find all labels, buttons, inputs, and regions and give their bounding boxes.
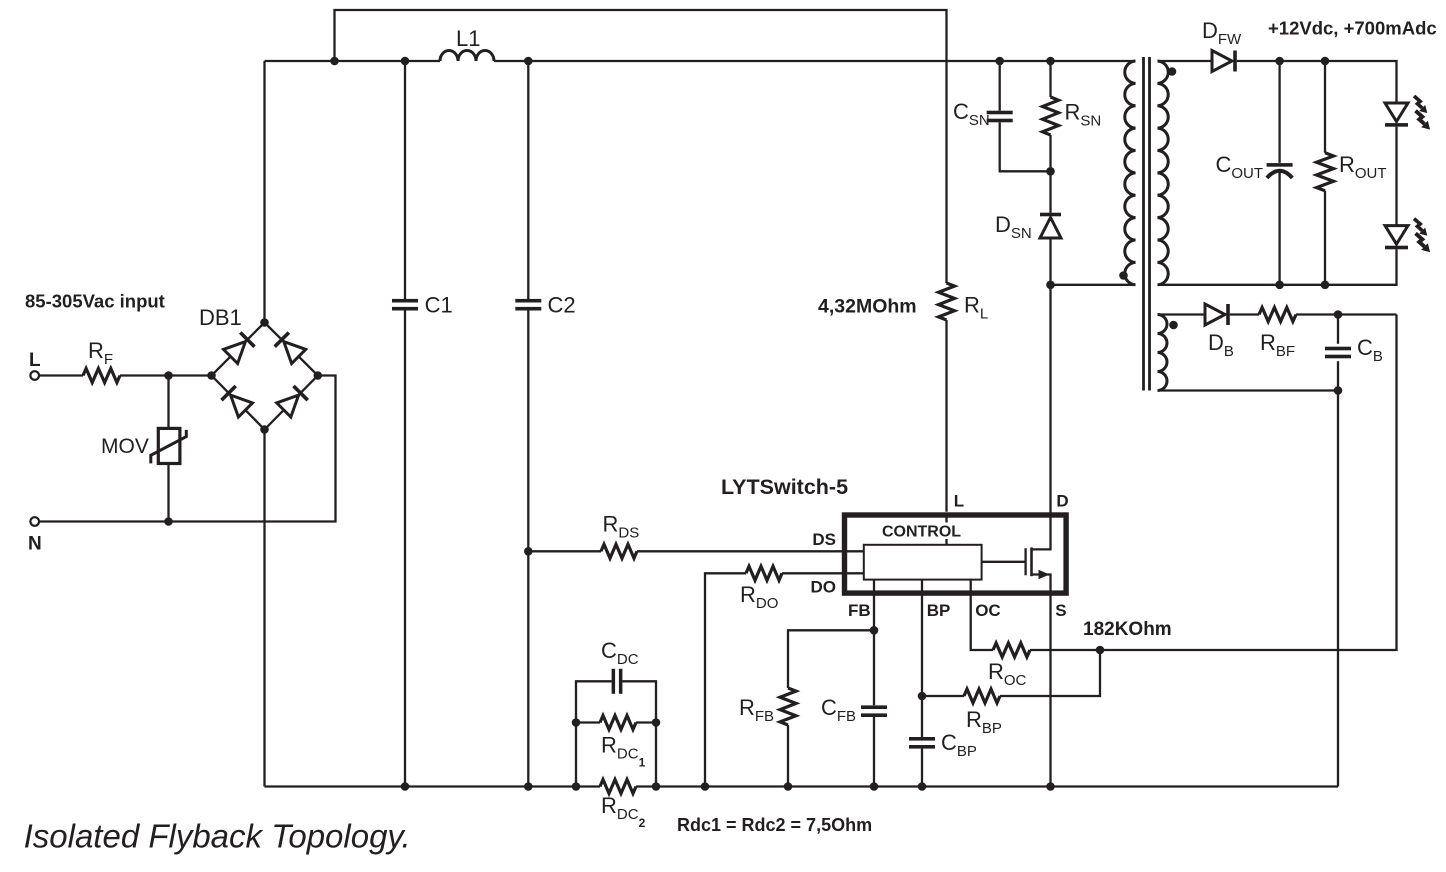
resistor RBF: [1259, 308, 1296, 322]
svg-text:Rdc1 = Rdc2 = 7,5Ohm: Rdc1 = Rdc2 = 7,5Ohm: [677, 815, 872, 835]
svg-text:DB: DB: [1208, 330, 1234, 360]
svg-text:CFB: CFB: [821, 695, 856, 725]
bridge rectifier DB1 frame: [212, 323, 318, 430]
wire C_B bottom lead: [1337, 361, 1339, 390]
wire RDC1 right lead: [636, 721, 656, 723]
node bias phasing dot: [1169, 321, 1178, 330]
wire bias winding to D_B: [1158, 313, 1206, 315]
wire bus to DB1 top: [263, 61, 265, 323]
node R_OUT bottom: [1321, 281, 1330, 290]
resistor RFB: [780, 688, 796, 725]
wire C2 top: [527, 61, 529, 299]
bridge diode top-right: [284, 342, 306, 364]
wire C1 top: [404, 61, 406, 299]
resistor RL: [939, 283, 955, 320]
svg-text:MOV: MOV: [101, 435, 149, 458]
wire FB node to C_FB: [873, 630, 875, 705]
svg-text:S: S: [1055, 601, 1066, 620]
light arrows LED D1: [1414, 96, 1427, 113]
transistor Q1 MOSFET gate wire: [982, 561, 1026, 563]
wire bias return to ground rail: [1337, 391, 1339, 787]
node R_DC1 left: [572, 718, 581, 727]
wire OC pin: [971, 580, 993, 650]
wire R_BP to 182K node: [1000, 650, 1100, 696]
svg-text:RSN: RSN: [1065, 100, 1102, 130]
transformer T1 secondary winding: [1158, 61, 1169, 285]
resistor RSN: [1043, 97, 1059, 135]
svg-text:OC: OC: [975, 601, 1001, 620]
wire N to DB1 right: [39, 376, 336, 522]
diode DB: [1205, 304, 1225, 325]
svg-text:RBP: RBP: [966, 707, 1002, 737]
svg-text:BP: BP: [927, 601, 951, 620]
svg-text:CBP: CBP: [941, 730, 977, 760]
svg-text:L1: L1: [456, 26, 480, 51]
node secondary phasing dot: [1168, 67, 1177, 76]
svg-text:DSN: DSN: [995, 212, 1032, 242]
resistor RDS: [601, 544, 637, 558]
resistor RDO: [746, 566, 782, 580]
svg-text:FB: FB: [848, 601, 871, 620]
wire C2 bottom: [527, 311, 529, 787]
wire secondary top to D_FW: [1158, 60, 1213, 62]
node C1 ground: [401, 782, 410, 791]
wire R_OUT top: [1324, 61, 1326, 153]
svg-text:LYTSwitch-5: LYTSwitch-5: [721, 475, 848, 499]
capacitor CDC: [612, 669, 616, 694]
wire L pin stub inside IC: [945, 517, 947, 545]
wire R_SN bottom lead: [1049, 135, 1051, 213]
terminal L: [30, 371, 39, 380]
wire D_SN anode to primary: [1051, 238, 1136, 285]
wire C_B top lead: [1337, 315, 1339, 344]
svg-text:+12Vdc, +700mAdc: +12Vdc, +700mAdc: [1268, 18, 1437, 39]
capacitor CSN: [987, 111, 1013, 115]
transistor Q1 channel bar: [1030, 547, 1033, 576]
node R_DO ground: [701, 782, 710, 791]
wire CDC box right: [622, 681, 656, 786]
transistor Q1 gate bar: [1024, 548, 1026, 575]
node C_B top: [1334, 310, 1343, 319]
wire bias winding return: [1158, 389, 1339, 391]
node MOV/N junction: [164, 517, 173, 526]
svg-text:85-305Vac input: 85-305Vac input: [25, 290, 165, 311]
node C_OUT top: [1275, 57, 1284, 66]
svg-text:RDO: RDO: [740, 582, 778, 612]
bridge diode bottom-right: [277, 395, 299, 417]
wire between LEDs: [1395, 127, 1397, 226]
node C2 ground: [524, 782, 533, 791]
wire L to R_F: [39, 374, 83, 376]
wire MOV top: [167, 376, 169, 429]
bridge diode bottom-left: [231, 395, 253, 417]
wire D pin and drain: [1032, 285, 1051, 550]
svg-text:COUT: COUT: [1216, 152, 1264, 182]
node R_FB ground: [784, 782, 793, 791]
svg-text:DO: DO: [811, 578, 837, 597]
node R_DC left: [572, 782, 581, 791]
wire 182K node to bias supply: [1100, 315, 1397, 651]
capacitor COUT: [1267, 163, 1293, 167]
svg-text:D: D: [1056, 492, 1068, 511]
transformer T1 primary winding: [1125, 61, 1136, 285]
capacitor C2: [515, 299, 541, 303]
LED D1: [1385, 103, 1408, 122]
terminal N: [30, 517, 39, 526]
wire FB pin: [873, 580, 875, 631]
wire rectified bus top route to R_L: [335, 10, 947, 283]
wire R_DO to DO pin: [782, 572, 864, 574]
resistor RF: [83, 369, 120, 383]
svg-text:L: L: [29, 350, 41, 371]
node R_OC/182K: [1096, 646, 1105, 655]
svg-text:RDS: RDS: [603, 512, 640, 542]
svg-text:DB1: DB1: [199, 305, 242, 330]
transformer T1 core: [1144, 57, 1150, 391]
node R_DC1 right: [652, 718, 661, 727]
wire FB node to R_FB: [788, 630, 874, 688]
wire R_OUT bottom: [1324, 191, 1326, 285]
node C_FB ground: [870, 782, 879, 791]
svg-text:CDC: CDC: [601, 638, 639, 668]
transistor Q1 source: [1032, 575, 1051, 597]
node C_SN top: [995, 57, 1004, 66]
wire LED chain to output return: [1158, 249, 1397, 284]
node DB1 negative: [260, 425, 269, 434]
resistor RDC1: [600, 716, 636, 730]
label CONTROL: [879, 523, 963, 540]
wire bottom rail left: [265, 785, 601, 787]
wire RDC1 left lead: [576, 721, 600, 723]
wire R_L to L pin: [945, 320, 947, 512]
wire CDC box left: [576, 681, 612, 786]
node FB: [870, 626, 879, 635]
node R_DS tap: [524, 547, 533, 556]
node MOV/L junction: [164, 371, 173, 380]
wire R_DS to DS pin: [637, 550, 864, 552]
svg-text:ROC: ROC: [988, 659, 1027, 689]
wire MOV bottom: [167, 464, 169, 522]
svg-text:C1: C1: [425, 293, 453, 318]
svg-text:N: N: [28, 534, 42, 555]
wire DO branch vertical: [705, 573, 746, 786]
svg-text:4,32MOhm: 4,32MOhm: [818, 296, 917, 318]
wire R_FB to ground rail: [787, 725, 789, 787]
node primary/D_SN/D-pin junction: [1046, 281, 1055, 290]
capacitor CB: [1325, 347, 1351, 351]
diode DSN: [1040, 213, 1061, 217]
wire C_BP to ground rail: [921, 749, 923, 787]
diode DFW: [1212, 51, 1232, 72]
svg-text:DFW: DFW: [1202, 18, 1242, 48]
wire D_FW to output bus: [1237, 61, 1397, 103]
svg-text:RL: RL: [964, 293, 988, 323]
wire C_OUT top: [1278, 61, 1280, 163]
wire bottom rail right: [636, 785, 1338, 787]
capacitor CBP: [909, 737, 935, 741]
capacitor C1: [392, 299, 418, 303]
node BP/R_BP: [918, 692, 927, 701]
svg-text:RFB: RFB: [739, 695, 774, 725]
node C_OUT bottom: [1275, 281, 1284, 290]
control block rectangle: [864, 545, 982, 580]
transistor Q1 source arrow: [1039, 570, 1050, 579]
transformer T1 bias winding: [1158, 315, 1168, 391]
node R_SN top: [1046, 57, 1055, 66]
svg-text:L: L: [954, 492, 964, 511]
node R_OUT top: [1321, 57, 1330, 66]
node DB1 left AC: [207, 371, 216, 380]
svg-text:RDC2: RDC2: [601, 793, 646, 830]
node DB1 right AC: [314, 371, 323, 380]
wire R_SN top lead: [1049, 61, 1051, 97]
node C_B bottom: [1334, 386, 1343, 395]
op-amp U1 LYTSwitch-5 package outline: [845, 515, 1067, 593]
wire rectified bus left of L1: [265, 60, 441, 62]
svg-text:CONTROL: CONTROL: [882, 523, 961, 540]
svg-text:CSN: CSN: [953, 99, 990, 129]
light arrows LED D2: [1414, 219, 1427, 236]
LED D2: [1385, 226, 1408, 245]
svg-text:DS: DS: [812, 530, 836, 549]
svg-text:182KOhm: 182KOhm: [1083, 619, 1172, 640]
wire R_OC to 182K node: [1030, 649, 1100, 651]
node C_BP ground: [918, 782, 927, 791]
node C2 top: [524, 57, 533, 66]
varistor MOV: [158, 428, 180, 463]
wire S pin to ground rail: [1049, 597, 1051, 787]
node R_DC right: [652, 782, 661, 791]
svg-text:RF: RF: [88, 338, 113, 368]
bridge diode top-left: [224, 342, 246, 364]
resistor ROC: [993, 643, 1030, 657]
node DB1 positive: [260, 318, 269, 327]
svg-text:C2: C2: [548, 293, 576, 318]
node S ground: [1046, 782, 1055, 791]
node bus/top-route junction: [330, 57, 339, 66]
wire C2 tap to R_DS: [528, 550, 601, 552]
wire C_FB to ground rail: [873, 717, 875, 787]
node snubber junction: [1046, 167, 1055, 176]
svg-text:RDC1: RDC1: [601, 733, 646, 770]
wire BP pin: [921, 580, 923, 737]
svg-text:CB: CB: [1357, 335, 1383, 365]
inductor L1: [440, 51, 494, 61]
wire DB1 bottom to ground rail: [263, 430, 265, 787]
wire D_B to R_BF: [1230, 313, 1259, 315]
wire C_OUT bottom: [1278, 171, 1280, 285]
wire C1 bottom: [404, 311, 406, 787]
resistor RBP: [964, 689, 1000, 703]
wire C_SN top lead: [999, 61, 1001, 111]
wire R_F to DB1: [120, 374, 212, 376]
wire rectified bus right of L1: [494, 60, 1136, 62]
wire R_BF to C_B node: [1296, 313, 1397, 315]
node C1 top: [401, 57, 410, 66]
svg-text:RBF: RBF: [1260, 330, 1295, 360]
svg-text:ROUT: ROUT: [1339, 152, 1387, 182]
wire C_SN bottom lead: [1000, 122, 1051, 171]
node primary phasing dot: [1119, 271, 1128, 280]
wire BP node to R_BP: [922, 695, 964, 697]
resistor ROUT: [1317, 153, 1334, 191]
capacitor CFB: [861, 705, 887, 709]
resistor RDC2 (in series on bottom rail): [600, 780, 636, 794]
svg-text:Isolated Flyback Topology.: Isolated Flyback Topology.: [24, 818, 411, 855]
